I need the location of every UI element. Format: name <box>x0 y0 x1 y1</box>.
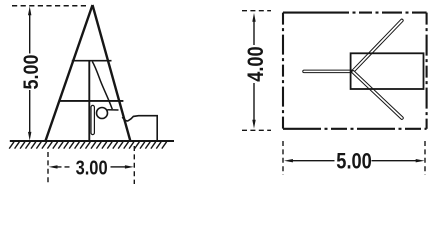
dim 3.00 right arrow <box>125 165 134 168</box>
inner rectangle <box>351 53 424 89</box>
dim 4.00 bottom arrow <box>252 120 255 129</box>
center pole <box>88 61 90 141</box>
person arm / rope to anchor <box>107 109 118 111</box>
dim 4.00 bottom extension (dashed) <box>242 129 271 131</box>
dim 4.00 top extension (dashed) <box>242 10 271 12</box>
dim 3.00 left arrow <box>49 165 58 168</box>
right leg <box>93 5 131 141</box>
dim 5.00 shafts <box>292 160 417 162</box>
crossbar lower <box>60 100 123 102</box>
dim 4.00 top arrow <box>252 13 255 22</box>
dim 5.00 right extension (dashed) <box>424 141 426 175</box>
dim 3.00 right extension (dashed) <box>133 146 135 184</box>
svg-text:3.00: 3.00 <box>76 157 108 180</box>
svg-text:5.00: 5.00 <box>336 148 372 173</box>
svg-text:5.00: 5.00 <box>19 54 43 89</box>
outer phantom border top <box>283 12 427 14</box>
lower diagonal strut (double line) <box>353 72 402 118</box>
crossbar upper <box>72 60 112 62</box>
ground line <box>10 140 174 142</box>
dim 5.00 left extension (dashed) <box>282 141 284 175</box>
dim 4.00 line <box>253 21 255 121</box>
dim 3.00 left shaft <box>57 166 73 168</box>
dim 3.00 left extension (dashed) <box>47 152 49 184</box>
outer phantom border right <box>426 13 428 129</box>
person body <box>91 105 94 134</box>
upper diagonal strut (double line) <box>353 21 402 72</box>
dim 5.00 top arrow <box>28 6 31 15</box>
ground hatching <box>9 142 166 149</box>
left strut (double line) <box>304 70 353 74</box>
dim 5.00 left arrow <box>284 159 293 162</box>
dim 5.00 vertical line <box>29 14 31 134</box>
person head <box>97 108 108 119</box>
outer phantom border bottom <box>283 128 427 130</box>
dim 5.00 bottom arrow <box>28 132 31 141</box>
left leg <box>46 5 93 141</box>
cable over anchor block <box>122 116 157 141</box>
dim 3.00 right shaft <box>111 166 127 168</box>
outer phantom border left <box>282 13 284 129</box>
svg-text:4.00: 4.00 <box>243 46 268 82</box>
hanging rope <box>92 62 112 110</box>
dim 5.00 right arrow <box>416 159 425 162</box>
dashed apex level line <box>12 5 89 7</box>
